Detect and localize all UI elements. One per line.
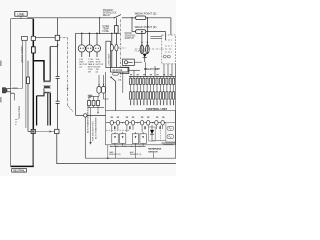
motor labels M3	[96, 59, 104, 74]
small resistors under transistors	[114, 126, 161, 129]
connector CN1 on thick line	[31, 36, 35, 40]
resistor row 1	[130, 78, 175, 84]
sensor block pair 1	[112, 132, 126, 143]
interlock switch SW-B	[146, 17, 150, 54]
capacitor C2 on magnetron line	[56, 101, 60, 129]
fuse F1 on thick line	[32, 47, 36, 53]
oscillator box	[166, 123, 176, 143]
wire thick branch to transformer	[33, 61, 44, 81]
dashed mid area	[160, 125, 162, 141]
noise filter unit box	[11, 19, 34, 167]
left margin tiny marks	[0, 61, 1, 103]
transistor leads	[112, 125, 163, 132]
transformer T1 secondary winding	[44, 87, 50, 93]
secondary interlock switch S3a	[110, 33, 113, 68]
weak point fuse W1	[135, 11, 171, 35]
sensor common wire	[110, 143, 146, 147]
power cord plug symbol	[2, 88, 22, 101]
sensor drops to bus	[116, 146, 154, 158]
wire magnetron down to bottom bus	[57, 134, 176, 164]
resistor row interconnect	[131, 76, 174, 91]
transformer T1 primary winding	[44, 80, 50, 86]
label OVEN LAMP FUSE	[102, 25, 109, 33]
node LINE label box	[15, 12, 27, 17]
motor M3 stirrer	[93, 33, 100, 58]
resistor pin labels	[130, 100, 174, 105]
monitor dash-dot through switches	[135, 48, 172, 50]
sensor labels	[109, 151, 142, 156]
secondary interlock switch S3b	[115, 45, 118, 68]
oven lamp OL tall box	[106, 41, 111, 67]
relay unit feed wires	[134, 62, 172, 76]
door interlock dash-dot chain	[59, 37, 73, 111]
wires into dashed enclosure	[151, 37, 162, 39]
dashed internal separator	[106, 129, 130, 131]
motor M2 turntable	[86, 33, 93, 58]
wire top-to-bus connector	[99, 18, 101, 34]
capacitor C1 on magnetron line	[56, 40, 60, 101]
motor M1 fan	[78, 33, 85, 58]
relay capsules K1 K2	[89, 75, 109, 101]
thermostat TH1	[123, 59, 135, 65]
sensor block pair 2	[132, 132, 146, 143]
junction dot on bus A	[107, 157, 109, 159]
thermostat TH2	[120, 67, 140, 73]
transistor tiny labels	[111, 117, 165, 118]
wire LINE box stub	[20, 16, 22, 19]
wire right edge drop	[174, 64, 176, 158]
capsule under fuse box	[113, 73, 119, 76]
label DOOR SENSING SWITCH	[125, 32, 136, 40]
left analog column	[89, 108, 98, 145]
wire thick line conductor (right edge of noise filter)	[32, 19, 34, 130]
interlock switch SW-A	[140, 31, 144, 54]
transistor pair row	[106, 120, 166, 125]
weak point fuse W2	[131, 17, 165, 40]
wire thick bottom conductor	[11, 165, 34, 167]
wire motor bus	[76, 32, 121, 34]
magnetron connector box	[55, 129, 59, 133]
oven lamp fuse FL	[115, 18, 119, 45]
wire line bus top	[27, 17, 114, 19]
node NEUTRAL label box	[12, 169, 27, 173]
connector CN2 dark square	[31, 129, 35, 133]
label PRIMARY INTERLOCK RELAY	[103, 9, 117, 17]
monitor switch S2	[110, 77, 122, 111]
wire HV thick leads	[37, 93, 51, 126]
primary interlock relay switch S1	[114, 15, 136, 19]
wire vertical feed to control	[75, 33, 77, 115]
motor labels M2	[88, 59, 96, 74]
junction dot at filament tap	[57, 44, 59, 46]
wire bottom bus A	[85, 157, 176, 159]
label MEMBRANE SENSOR	[148, 148, 161, 154]
wire horizontal into control with connector circle	[76, 114, 106, 117]
control unit box	[106, 111, 176, 145]
dashed enclosure top right	[162, 35, 176, 64]
diode D1	[143, 54, 147, 62]
SA fuse box	[111, 68, 129, 73]
resistor ladder bus	[129, 75, 176, 77]
transformer filament leg jog	[37, 47, 51, 96]
door sensing dash-dot line	[120, 20, 122, 78]
tiny labels above resistor band	[130, 73, 172, 76]
wire from CN2 to magnetron box	[35, 131, 54, 133]
fuse F2 inside filter	[27, 61, 32, 132]
capacitor C-noise with legs inside filter	[15, 36, 27, 128]
tiny label under oscillator box	[161, 143, 175, 145]
transformer winding rects	[88, 72, 123, 111]
diode D2 big	[149, 125, 156, 141]
resistor row 2	[130, 92, 175, 99]
door dash-dot into switches	[118, 47, 126, 49]
wire connector drop to bottom bus A	[84, 117, 86, 158]
wire tap jog	[50, 46, 57, 48]
thermal cutout box node	[35, 18, 59, 41]
motor labels M1	[79, 59, 87, 69]
